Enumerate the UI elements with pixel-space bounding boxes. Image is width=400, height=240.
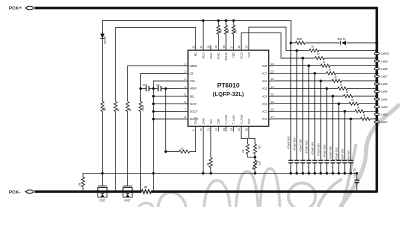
svg-text:NTC: NTC <box>258 161 260 166</box>
wire cap drop row3 <box>308 66 310 174</box>
svg-text:VC5: VC5 <box>262 87 268 91</box>
svg-text:Cell3: Cell3 <box>381 105 388 109</box>
wire row9 VC2 to bus <box>274 110 377 112</box>
svg-text:VC7: VC7 <box>262 72 268 76</box>
junction dots fan rows <box>290 42 293 45</box>
svg-text:BZX84: BZX84 <box>105 36 107 44</box>
svg-text:VC8: VC8 <box>262 64 268 68</box>
wire battery stack bus <box>376 7 379 193</box>
U1 top pin stubs 32-25 <box>195 45 197 50</box>
capacitor C2 <box>158 86 159 91</box>
wire pin2 CB net <box>141 73 183 191</box>
U1 right pin stubs 24-17 <box>269 65 274 67</box>
svg-text:(LQFP-32L): (LQFP-32L) <box>213 92 244 98</box>
junction dot AUX-R7 <box>164 150 167 153</box>
junction dots R9-R10 node <box>254 156 257 159</box>
IC U1 PT6010 body <box>188 50 269 126</box>
svg-text:470nF-16V: 470nF-16V <box>323 144 327 157</box>
wire PCK- rail <box>35 190 377 193</box>
svg-text:ACBL: ACBL <box>217 52 221 60</box>
svg-text:C10L: C10L <box>209 52 213 59</box>
resistor ladder row10 <box>361 117 371 121</box>
wire row2 to bus <box>303 57 377 59</box>
svg-text:RCHG: RCHG <box>224 52 228 60</box>
wire pin31 riser <box>202 21 204 45</box>
junction dots cap drops on AGND <box>290 172 293 175</box>
svg-text:VSS: VSS <box>190 79 196 83</box>
svg-text:VREF: VREF <box>190 87 198 91</box>
diode D1 <box>100 34 104 39</box>
svg-text:200R: 200R <box>297 39 303 41</box>
svg-text:PT6010: PT6010 <box>217 83 240 90</box>
resistor R3 <box>125 102 129 112</box>
svg-text:EN_R: EN_R <box>194 117 198 124</box>
U1 bottom pin stubs 9-16 <box>195 126 197 131</box>
junction dots VSS taps <box>152 95 155 98</box>
resistor ladder row2 <box>315 56 325 60</box>
wire row5 VC6 to bus <box>274 80 377 82</box>
wire cap drop row2 <box>302 58 304 173</box>
svg-text:Cell5: Cell5 <box>381 90 388 94</box>
resistor R14 <box>296 41 306 45</box>
wire cap drop row7 <box>332 96 334 173</box>
capacitor C4 <box>294 160 299 161</box>
svg-text:VC9: VC9 <box>247 52 251 58</box>
svg-text:RGO: RGO <box>201 52 205 58</box>
svg-text:SDA: SDA <box>217 118 221 124</box>
wire pin10 LPW net <box>202 132 204 174</box>
junction dots cap row <box>139 87 142 90</box>
wire cap drop row9 <box>344 111 346 173</box>
wire cap drop row8 <box>338 104 340 174</box>
svg-text:Cell2: Cell2 <box>381 113 388 117</box>
svg-text:VC2: VC2 <box>262 110 268 114</box>
capacitor C9 <box>324 160 329 161</box>
capacitor C10 <box>330 160 335 161</box>
svg-text:Cell9: Cell9 <box>381 59 388 63</box>
wire pin26 VC9 net <box>241 33 303 58</box>
svg-text:Cell1: Cell1 <box>381 120 388 124</box>
resistor ladder row1 <box>309 48 319 52</box>
resistor R5 <box>82 173 84 177</box>
capacitor C7 <box>312 160 317 161</box>
svg-text:Cell10: Cell10 <box>381 52 390 56</box>
svg-text:470nF-16V: 470nF-16V <box>311 141 315 154</box>
wire row0 VCC to bus <box>291 42 377 44</box>
wire pin16 net <box>249 132 255 145</box>
capacitor C8 <box>318 160 323 161</box>
svg-text:RB: RB <box>144 187 148 189</box>
capacitor C11 <box>336 160 341 161</box>
wire row3 VC8 to bus <box>274 65 377 67</box>
wire row4 VC7 to bus <box>274 72 377 74</box>
svg-text:LPW: LPW <box>201 118 205 124</box>
resistor ladder row6 <box>338 86 348 90</box>
svg-text:Cell8: Cell8 <box>381 67 388 71</box>
wire row6 VC5 to bus <box>274 88 377 90</box>
resistor ladder row5 <box>332 79 342 83</box>
svg-text:SUVT: SUVT <box>190 102 198 106</box>
junction dots bus taps <box>375 41 378 44</box>
svg-text:470nF-16V: 470nF-16V <box>329 146 333 159</box>
wire AUX net <box>165 89 167 152</box>
transistor Q1 CFET <box>98 188 107 192</box>
capacitor C6 <box>306 160 311 161</box>
wire PCK+ rail <box>35 7 377 10</box>
transistor Q2 DFET <box>123 188 132 192</box>
capacitor C1 <box>146 86 147 91</box>
svg-text:1M: 1M <box>80 183 82 186</box>
capacitor C5 <box>300 160 305 161</box>
wire pin11 SCL net <box>210 132 212 158</box>
svg-text:47nF: 47nF <box>142 85 148 87</box>
wire VSS taps pins 5-8 <box>153 95 182 97</box>
thermistor RT1 <box>253 160 256 169</box>
wire pin3 VSS net <box>153 81 182 192</box>
U1 left pin stubs 1-8 <box>183 65 188 67</box>
resistor R1 <box>100 102 104 112</box>
svg-text:1uF: 1uF <box>156 85 161 87</box>
resistor ladder row7 <box>343 94 353 98</box>
resistor ladder row4 <box>326 71 336 75</box>
svg-text:SOC/T: SOC/T <box>190 110 199 114</box>
wire cap drop row6 <box>326 89 328 174</box>
svg-text:VC3: VC3 <box>262 102 268 106</box>
wire row8 VC3 to bus <box>274 103 377 105</box>
svg-text:P1O: P1O <box>247 119 251 124</box>
svg-text:NC: NC <box>194 52 198 56</box>
wire cap drop row5 <box>320 81 322 173</box>
wire CFET gate <box>101 173 103 186</box>
svg-text:CBRH: CBRH <box>190 64 198 68</box>
capacitor C14 <box>354 180 359 181</box>
svg-text:PCK-: PCK- <box>9 189 21 194</box>
svg-text:Cell6: Cell6 <box>381 82 388 86</box>
svg-text:C_ALM: C_ALM <box>239 114 243 124</box>
wire AGND line <box>83 172 357 174</box>
resistor R4 <box>138 102 142 112</box>
wire cap drop row0 <box>290 43 292 173</box>
resistor R11 pullup <box>217 21 219 26</box>
svg-text:470nF-16V: 470nF-16V <box>341 148 345 161</box>
svg-text:470nF-16V: 470nF-16V <box>347 150 351 163</box>
svg-text:VC4: VC4 <box>262 94 268 98</box>
wire row7 VC4 to bus <box>274 95 377 97</box>
svg-text:VDD: VDD <box>232 52 236 58</box>
svg-text:CB: CB <box>190 72 194 76</box>
svg-text:2M2: 2M2 <box>220 28 222 33</box>
svg-text:470nF-16V: 470nF-16V <box>317 143 321 156</box>
svg-text:VC10: VC10 <box>239 52 243 59</box>
wire pin1 CBRH net <box>128 66 183 186</box>
svg-text:Cell4: Cell4 <box>381 97 388 101</box>
svg-text:VC6: VC6 <box>262 79 268 83</box>
svg-text:BAS 45: BAS 45 <box>338 38 347 41</box>
wire cap drop row1 <box>296 51 298 174</box>
svg-text:470nF-16V: 470nF-16V <box>299 139 303 152</box>
wire pin25 VC10 net <box>249 27 297 50</box>
svg-text:470nF-16V: 470nF-16V <box>287 136 291 149</box>
wire VREF cap row <box>141 88 183 90</box>
svg-text:Cell7: Cell7 <box>381 75 388 79</box>
svg-text:V_ALM: V_ALM <box>224 115 228 125</box>
resistor ladder row3 <box>321 64 331 68</box>
wire net LPB (line B) <box>116 28 196 192</box>
svg-text:SEL: SEL <box>190 94 196 98</box>
wire C14 drop <box>356 173 358 191</box>
svg-text:100R: 100R <box>143 105 145 111</box>
wire cap drop row10 <box>350 119 352 173</box>
resistor R10 <box>253 144 256 154</box>
capacitor C13 <box>348 160 353 161</box>
capacitor C3 <box>288 160 293 161</box>
svg-text:470nF-16V: 470nF-16V <box>305 140 309 153</box>
resistor R13 pullup <box>233 21 235 26</box>
resistor R12 pullup <box>225 21 227 26</box>
svg-text:SCL: SCL <box>209 118 213 124</box>
svg-text:T_ALM: T_ALM <box>232 115 236 124</box>
svg-text:470nF-16V: 470nF-16V <box>293 137 297 150</box>
svg-text:1M: 1M <box>208 163 210 166</box>
nodes Cell10-Cell1 terminals <box>374 53 379 55</box>
wire pin15 net <box>241 132 247 145</box>
junction dots AGND line <box>101 172 104 175</box>
resistor ladder row8 <box>349 102 359 106</box>
diode D2 <box>340 41 347 46</box>
resistor R6 <box>142 190 152 194</box>
junction dots line A <box>202 19 205 22</box>
wire pin9 EN_R net <box>166 132 196 152</box>
wire row1 to bus <box>297 50 377 52</box>
svg-text:DFET: DFET <box>124 200 131 203</box>
svg-text:VC1: VC1 <box>262 117 268 121</box>
wire row10 VC1 to bus <box>274 118 377 120</box>
wire net VCC (line A) <box>102 21 291 174</box>
resistor ladder row9 <box>355 109 365 113</box>
svg-text:CFET: CFET <box>99 200 106 203</box>
watermark (decorative) <box>138 203 153 207</box>
capacitor C12 <box>342 160 347 161</box>
resistor R7 <box>179 150 189 153</box>
svg-text:470nF-16V: 470nF-16V <box>335 147 339 160</box>
resistor R9 <box>246 144 249 154</box>
wire cap drop row4 <box>314 73 316 173</box>
svg-text:PCK+: PCK+ <box>9 6 22 11</box>
resistor R2 <box>113 102 117 112</box>
